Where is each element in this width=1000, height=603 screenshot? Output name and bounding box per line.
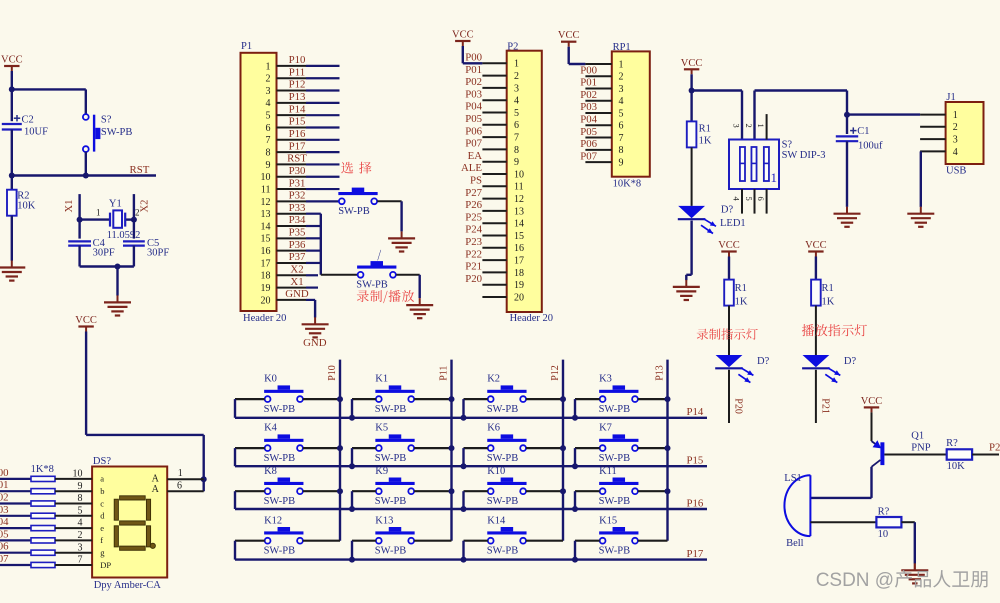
svg-text:6: 6 bbox=[177, 481, 182, 492]
svg-text:9: 9 bbox=[619, 157, 624, 168]
svg-text:R?: R? bbox=[878, 507, 890, 518]
svg-text:6: 6 bbox=[266, 123, 271, 134]
svg-text:1: 1 bbox=[178, 468, 183, 479]
svg-text:RST: RST bbox=[287, 153, 307, 165]
svg-text:17: 17 bbox=[514, 256, 524, 267]
svg-text:P00: P00 bbox=[0, 467, 9, 479]
svg-text:VCC: VCC bbox=[1, 55, 23, 66]
svg-text:10K*8: 10K*8 bbox=[613, 179, 642, 190]
svg-text:b: b bbox=[100, 486, 104, 496]
svg-text:14: 14 bbox=[514, 219, 524, 230]
svg-text:SW-PB: SW-PB bbox=[264, 496, 296, 507]
svg-text:SW-PB: SW-PB bbox=[375, 546, 407, 557]
svg-text:K5: K5 bbox=[375, 423, 388, 434]
svg-text:J1: J1 bbox=[946, 92, 955, 103]
svg-text:SW-PB: SW-PB bbox=[599, 496, 631, 507]
svg-text:P17: P17 bbox=[687, 548, 704, 560]
svg-text:e: e bbox=[100, 523, 104, 533]
svg-text:1: 1 bbox=[771, 170, 778, 185]
svg-text:SW-PB: SW-PB bbox=[264, 404, 296, 415]
svg-text:P16: P16 bbox=[687, 497, 704, 509]
svg-text:SW-PB: SW-PB bbox=[487, 546, 519, 557]
svg-text:3: 3 bbox=[619, 84, 624, 95]
svg-text:K10: K10 bbox=[487, 466, 505, 477]
svg-text:d: d bbox=[100, 511, 105, 521]
svg-text:8: 8 bbox=[78, 493, 83, 504]
svg-text:K3: K3 bbox=[599, 374, 612, 385]
svg-text:100uf: 100uf bbox=[858, 141, 883, 152]
svg-text:11.0592: 11.0592 bbox=[107, 230, 141, 241]
svg-text:P03: P03 bbox=[465, 88, 482, 100]
svg-text:VCC: VCC bbox=[718, 240, 740, 251]
svg-text:10: 10 bbox=[878, 529, 889, 540]
svg-text:1: 1 bbox=[756, 124, 766, 128]
svg-text:4: 4 bbox=[953, 147, 958, 158]
svg-text:P05: P05 bbox=[0, 528, 9, 540]
svg-text:SW DIP-3: SW DIP-3 bbox=[782, 150, 826, 161]
svg-text:SW-PB: SW-PB bbox=[487, 453, 519, 464]
svg-text:P24: P24 bbox=[465, 224, 482, 236]
svg-text:PS: PS bbox=[470, 175, 482, 187]
svg-text:P07: P07 bbox=[580, 150, 597, 162]
svg-text:VCC: VCC bbox=[558, 30, 580, 41]
svg-text:P1: P1 bbox=[241, 41, 252, 52]
svg-text:P16: P16 bbox=[289, 128, 306, 140]
svg-text:P03: P03 bbox=[580, 101, 597, 113]
svg-text:10: 10 bbox=[261, 172, 271, 183]
svg-text:8: 8 bbox=[619, 145, 624, 156]
svg-text:4: 4 bbox=[78, 518, 83, 529]
svg-text:P13: P13 bbox=[655, 365, 666, 381]
svg-text:Q1: Q1 bbox=[911, 430, 924, 441]
svg-text:K2: K2 bbox=[487, 374, 500, 385]
svg-text:Dpy Amber-CA: Dpy Amber-CA bbox=[94, 580, 162, 591]
svg-text:LED1: LED1 bbox=[720, 218, 746, 229]
svg-text:P35: P35 bbox=[289, 227, 306, 239]
svg-text:3: 3 bbox=[732, 124, 742, 128]
svg-text:5: 5 bbox=[266, 111, 271, 122]
svg-text:10K: 10K bbox=[947, 461, 966, 472]
svg-text:10UF: 10UF bbox=[24, 127, 48, 138]
svg-text:5: 5 bbox=[78, 505, 83, 516]
svg-text:19: 19 bbox=[514, 280, 524, 291]
svg-text:3: 3 bbox=[953, 135, 958, 146]
svg-text:X1: X1 bbox=[64, 200, 75, 213]
svg-text:5: 5 bbox=[744, 197, 754, 201]
svg-text:19: 19 bbox=[261, 283, 271, 294]
svg-text:P06: P06 bbox=[0, 541, 9, 553]
svg-text:20: 20 bbox=[514, 292, 524, 303]
svg-text:ALE: ALE bbox=[461, 162, 482, 174]
svg-text:P27: P27 bbox=[465, 187, 482, 199]
svg-text:SW-PB: SW-PB bbox=[338, 206, 370, 217]
svg-text:K15: K15 bbox=[599, 515, 617, 526]
svg-text:3: 3 bbox=[266, 86, 271, 97]
svg-text:9: 9 bbox=[78, 481, 83, 492]
svg-text:R1: R1 bbox=[735, 283, 747, 294]
svg-text:15: 15 bbox=[514, 231, 524, 242]
svg-text:P37: P37 bbox=[289, 251, 306, 263]
svg-text:A: A bbox=[152, 474, 160, 485]
svg-text:P25: P25 bbox=[465, 211, 482, 223]
svg-text:D?: D? bbox=[844, 356, 857, 367]
svg-text:P26: P26 bbox=[465, 199, 482, 211]
svg-text:K0: K0 bbox=[264, 374, 277, 385]
svg-text:15: 15 bbox=[261, 234, 271, 245]
svg-text:17: 17 bbox=[261, 258, 271, 269]
svg-text:P04: P04 bbox=[0, 516, 9, 528]
svg-text:P04: P04 bbox=[465, 101, 482, 113]
svg-text:SW-PB: SW-PB bbox=[264, 546, 296, 557]
svg-text:P01: P01 bbox=[580, 77, 597, 89]
svg-text:P21: P21 bbox=[465, 261, 482, 273]
svg-text:f: f bbox=[100, 535, 103, 545]
svg-text:SW-PB: SW-PB bbox=[487, 404, 519, 415]
svg-text:20: 20 bbox=[261, 295, 271, 306]
svg-text:A: A bbox=[152, 484, 160, 495]
svg-text:P34: P34 bbox=[289, 214, 306, 226]
svg-text:P12: P12 bbox=[550, 365, 561, 381]
svg-text:3: 3 bbox=[514, 83, 519, 94]
svg-text:VCC: VCC bbox=[861, 396, 883, 407]
svg-text:P05: P05 bbox=[580, 126, 597, 138]
svg-text:30PF: 30PF bbox=[147, 248, 169, 259]
svg-text:GND: GND bbox=[285, 288, 309, 300]
svg-text:P06: P06 bbox=[465, 125, 482, 137]
svg-text:Bell: Bell bbox=[786, 538, 804, 549]
svg-text:P31: P31 bbox=[289, 177, 306, 189]
svg-text:PNP: PNP bbox=[911, 443, 930, 454]
svg-text:12: 12 bbox=[261, 197, 271, 208]
svg-text:P20: P20 bbox=[733, 398, 744, 414]
svg-text:8: 8 bbox=[266, 148, 271, 159]
svg-text:11: 11 bbox=[514, 182, 524, 193]
svg-text:SW-PB: SW-PB bbox=[599, 546, 631, 557]
svg-text:P30: P30 bbox=[289, 165, 306, 177]
svg-text:P33: P33 bbox=[289, 202, 306, 214]
svg-text:P23: P23 bbox=[465, 236, 482, 248]
svg-text:5: 5 bbox=[619, 108, 624, 119]
svg-text:13: 13 bbox=[261, 209, 271, 220]
svg-text:P07: P07 bbox=[0, 553, 9, 565]
svg-text:1K*8: 1K*8 bbox=[31, 464, 54, 475]
svg-text:1K: 1K bbox=[822, 297, 835, 308]
svg-text:SW-PB: SW-PB bbox=[599, 404, 631, 415]
svg-text:GND: GND bbox=[303, 337, 327, 349]
svg-text:USB: USB bbox=[946, 166, 966, 177]
svg-text:VCC: VCC bbox=[452, 30, 474, 41]
svg-text:P02: P02 bbox=[580, 89, 597, 101]
svg-text:K9: K9 bbox=[375, 466, 388, 477]
svg-text:D?: D? bbox=[721, 205, 734, 216]
svg-text:1: 1 bbox=[96, 208, 101, 218]
svg-text:SW-PB: SW-PB bbox=[101, 127, 133, 138]
svg-text:2: 2 bbox=[135, 208, 140, 218]
svg-text:SW-PB: SW-PB bbox=[356, 280, 388, 291]
svg-text:R?: R? bbox=[946, 438, 958, 449]
svg-text:K11: K11 bbox=[599, 466, 617, 477]
svg-text:K14: K14 bbox=[487, 515, 506, 526]
svg-text:P02: P02 bbox=[0, 492, 9, 504]
svg-text:1K: 1K bbox=[735, 297, 748, 308]
svg-text:2: 2 bbox=[514, 71, 519, 82]
svg-text:10: 10 bbox=[73, 469, 83, 480]
svg-text:CSDN @: CSDN @ bbox=[816, 570, 894, 591]
svg-text:SW-PB: SW-PB bbox=[375, 404, 407, 415]
svg-text:12: 12 bbox=[514, 194, 524, 205]
svg-text:30PF: 30PF bbox=[93, 248, 115, 259]
svg-text:4: 4 bbox=[619, 96, 624, 107]
svg-text:P21: P21 bbox=[819, 398, 830, 414]
svg-text:VCC: VCC bbox=[75, 315, 97, 326]
svg-text:7: 7 bbox=[514, 133, 519, 144]
svg-text:2: 2 bbox=[266, 74, 271, 85]
svg-text:LS1: LS1 bbox=[784, 473, 802, 484]
svg-text:1K: 1K bbox=[699, 136, 712, 147]
svg-text:P02: P02 bbox=[465, 76, 482, 88]
svg-text:P00: P00 bbox=[580, 64, 597, 76]
svg-text:K4: K4 bbox=[264, 423, 278, 434]
svg-text:P17: P17 bbox=[289, 140, 306, 152]
svg-text:X2: X2 bbox=[140, 200, 151, 213]
svg-text:16: 16 bbox=[261, 246, 271, 257]
svg-text:6: 6 bbox=[619, 121, 624, 132]
svg-text:3: 3 bbox=[78, 542, 83, 553]
svg-text:C2: C2 bbox=[22, 115, 34, 126]
svg-text:P11: P11 bbox=[439, 366, 450, 381]
svg-text:4: 4 bbox=[514, 96, 519, 107]
svg-text:2: 2 bbox=[953, 122, 958, 133]
svg-text:SW-PB: SW-PB bbox=[375, 453, 407, 464]
svg-text:P10: P10 bbox=[289, 54, 306, 66]
svg-text:2: 2 bbox=[619, 72, 624, 83]
svg-text:P01: P01 bbox=[465, 64, 482, 76]
svg-text:g: g bbox=[100, 548, 105, 558]
svg-text:c: c bbox=[100, 498, 104, 508]
svg-text:1: 1 bbox=[619, 59, 624, 70]
svg-text:7: 7 bbox=[266, 135, 271, 146]
svg-text:13: 13 bbox=[514, 206, 524, 217]
svg-text:X1: X1 bbox=[290, 276, 303, 288]
svg-text:P14: P14 bbox=[289, 103, 306, 115]
svg-text:P00: P00 bbox=[465, 52, 482, 64]
svg-text:P22: P22 bbox=[465, 248, 482, 260]
svg-text:11: 11 bbox=[261, 184, 271, 195]
svg-text:P01: P01 bbox=[0, 479, 9, 491]
svg-text:P06: P06 bbox=[580, 138, 597, 150]
svg-text:10: 10 bbox=[514, 169, 524, 180]
svg-text:EA: EA bbox=[468, 150, 483, 162]
svg-text:SW-PB: SW-PB bbox=[264, 453, 296, 464]
svg-text:SW-PB: SW-PB bbox=[599, 453, 631, 464]
svg-text:K12: K12 bbox=[264, 515, 282, 526]
svg-text:R1: R1 bbox=[822, 283, 834, 294]
svg-text:C1: C1 bbox=[857, 126, 869, 137]
svg-text:1: 1 bbox=[266, 61, 271, 72]
svg-text:P12: P12 bbox=[289, 79, 306, 91]
svg-text:P04: P04 bbox=[580, 114, 597, 126]
svg-text:P32: P32 bbox=[289, 190, 306, 202]
svg-text:5: 5 bbox=[514, 108, 519, 119]
svg-text:2: 2 bbox=[744, 124, 754, 128]
svg-text:9: 9 bbox=[266, 160, 271, 171]
svg-text:18: 18 bbox=[514, 268, 524, 279]
svg-text:P15: P15 bbox=[687, 455, 704, 467]
svg-text:K1: K1 bbox=[375, 374, 388, 385]
svg-text:6: 6 bbox=[756, 197, 766, 201]
svg-text:K13: K13 bbox=[375, 515, 393, 526]
svg-text:18: 18 bbox=[261, 271, 271, 282]
svg-text:2: 2 bbox=[78, 530, 83, 541]
svg-text:RST: RST bbox=[130, 164, 150, 176]
svg-text:Y1: Y1 bbox=[109, 199, 122, 210]
svg-text:S?: S? bbox=[101, 115, 112, 126]
svg-text:16: 16 bbox=[514, 243, 524, 254]
svg-text:14: 14 bbox=[261, 221, 271, 232]
svg-text:K8: K8 bbox=[264, 466, 277, 477]
svg-text:8: 8 bbox=[514, 145, 519, 156]
svg-text:X2: X2 bbox=[290, 263, 303, 275]
svg-text:a: a bbox=[100, 474, 104, 484]
svg-text:P07: P07 bbox=[465, 138, 482, 150]
svg-text:K6: K6 bbox=[487, 423, 500, 434]
svg-text:P13: P13 bbox=[289, 91, 306, 103]
svg-text:P15: P15 bbox=[289, 116, 306, 128]
svg-text:VCC: VCC bbox=[681, 58, 703, 69]
svg-text:P11: P11 bbox=[289, 66, 305, 78]
svg-text:9: 9 bbox=[514, 157, 519, 168]
svg-text:DS?: DS? bbox=[93, 456, 111, 467]
svg-text:DP: DP bbox=[100, 560, 111, 570]
svg-text:7: 7 bbox=[619, 133, 624, 144]
svg-text:R2: R2 bbox=[17, 190, 29, 201]
svg-text:P05: P05 bbox=[465, 113, 482, 125]
svg-text:10K: 10K bbox=[17, 201, 36, 212]
svg-text:P10: P10 bbox=[327, 365, 338, 381]
svg-text:P03: P03 bbox=[0, 504, 9, 516]
svg-text:SW-PB: SW-PB bbox=[375, 496, 407, 507]
svg-text:K7: K7 bbox=[599, 423, 612, 434]
svg-text:P36: P36 bbox=[289, 239, 306, 251]
svg-text:D?: D? bbox=[757, 356, 770, 367]
svg-text:6: 6 bbox=[514, 120, 519, 131]
svg-text:Header 20: Header 20 bbox=[243, 313, 286, 324]
svg-text:7: 7 bbox=[78, 555, 83, 566]
svg-text:P22: P22 bbox=[989, 442, 1000, 454]
svg-text:1: 1 bbox=[514, 59, 519, 70]
svg-text:P2: P2 bbox=[507, 41, 518, 52]
svg-text:SW-PB: SW-PB bbox=[487, 496, 519, 507]
svg-text:R1: R1 bbox=[699, 124, 711, 135]
svg-text:P14: P14 bbox=[687, 406, 704, 418]
svg-text:1: 1 bbox=[953, 110, 958, 121]
svg-text:Header 20: Header 20 bbox=[510, 313, 553, 324]
svg-text:VCC: VCC bbox=[805, 240, 827, 251]
svg-text:4: 4 bbox=[266, 98, 271, 109]
svg-text:P20: P20 bbox=[465, 273, 482, 285]
svg-text:RP1: RP1 bbox=[613, 42, 631, 53]
